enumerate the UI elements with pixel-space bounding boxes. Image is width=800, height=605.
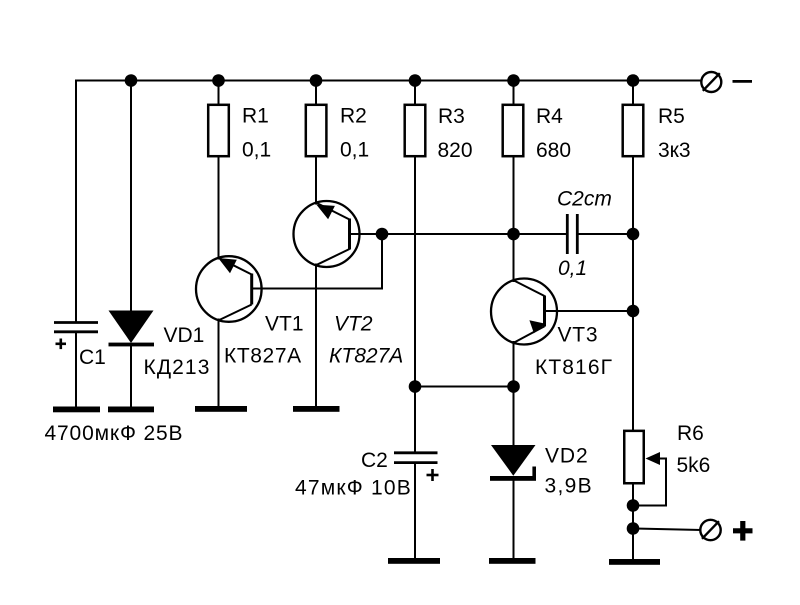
wire R1 top lead: [218, 81, 220, 105]
wire VT2 collector to common bar: [315, 265, 317, 408]
wire VD1 column upper: [130, 81, 132, 313]
svg-text:R4: R4: [536, 105, 563, 128]
junction R6 wiper return: [627, 499, 640, 512]
junction R5/top bus: [627, 74, 640, 87]
svg-text:4700мкФ 25В: 4700мкФ 25В: [45, 422, 184, 445]
junction R5/base bus: [627, 228, 640, 241]
wire VD1 column lower: [130, 345, 132, 407]
svg-text:R1: R1: [242, 105, 269, 128]
wire mid node line C2 to VD2: [415, 386, 514, 388]
wire top negative bus: [76, 80, 701, 82]
wire node A vertical base tie: [381, 234, 383, 289]
svg-text:КТ827А: КТ827А: [224, 345, 302, 368]
svg-text:5k6: 5k6: [677, 454, 711, 477]
svg-text:680: 680: [536, 139, 571, 162]
junction node A base tie: [376, 228, 389, 241]
junction R4/base bus: [507, 228, 520, 241]
resistor R3: [405, 105, 426, 156]
junction R1/top bus: [212, 74, 225, 87]
junction C2/mid line: [409, 380, 422, 393]
svg-text:VT3: VT3: [558, 324, 599, 347]
common rail bar under VD2: [489, 558, 536, 564]
svg-text:47мкФ 10В: 47мкФ 10В: [295, 477, 412, 500]
common rail bar under VD1: [108, 407, 154, 413]
wire R1 bottom lead to VT1 emitter: [218, 158, 220, 259]
svg-text:VD2: VD2: [545, 445, 589, 468]
transistor VT1 emitter diagonal: [219, 258, 251, 274]
resistor R2: [306, 105, 327, 156]
transistor VT2 base bar: [348, 219, 351, 250]
common rail bar under VT2: [293, 406, 340, 412]
svg-text:3,9В: 3,9В: [545, 475, 593, 498]
minus polarity sign: [733, 80, 753, 83]
svg-text:VD1: VD1: [164, 324, 205, 347]
terminal plus (bottom right): [700, 520, 720, 540]
zener diode VD2: [490, 445, 536, 481]
wire R6 wiper return vertical: [665, 459, 667, 506]
transistor VT1 emitter arrow: [218, 258, 237, 273]
svg-text:0,1: 0,1: [242, 139, 271, 162]
wire C2 bottom lead: [414, 464, 416, 560]
transistor VT2 collector diagonal: [317, 249, 350, 265]
wire R3 bottom lead to node C2: [414, 158, 416, 453]
transistor VT2 emitter arrow: [316, 205, 335, 220]
transistor VT1 base bar: [250, 274, 253, 305]
wire R5 top lead: [632, 81, 634, 105]
junction R4/top bus: [507, 74, 520, 87]
common rail bar under C2: [388, 558, 440, 564]
wire output tap to plus terminal: [633, 529, 701, 531]
svg-text:C2cm: C2cm: [557, 188, 612, 211]
svg-text:820: 820: [438, 139, 473, 162]
capacitor C2 plus polarity mark: [427, 469, 439, 481]
transistor VT3 emitter diagonal: [514, 281, 544, 296]
transistor VT1 collector diagonal: [219, 305, 251, 321]
junction VD2/mid line: [507, 380, 520, 393]
terminal minus (top right): [701, 72, 721, 92]
diode VD1: [109, 311, 155, 347]
wire R6 wiper return to column: [633, 505, 666, 507]
wire VD2 cathode to common bar: [513, 480, 515, 559]
svg-text:R6: R6: [677, 422, 704, 445]
transistor VT1 circle: [196, 256, 262, 322]
svg-text:R3: R3: [438, 105, 465, 128]
transistor VT3 base bar: [543, 296, 546, 327]
wire VT3 base lead: [545, 310, 634, 312]
common rail bar under VT1: [195, 406, 247, 412]
capacitor C1 plates: [54, 323, 98, 332]
junction R3/top bus: [409, 74, 422, 87]
svg-text:3к3: 3к3: [658, 139, 691, 162]
resistor R1: [208, 105, 229, 156]
potentiometer R6 wiper arrow: [646, 452, 661, 465]
junction output tap: [627, 522, 640, 535]
svg-text:VT1: VT1: [265, 313, 304, 336]
wire C1 column upper: [75, 81, 77, 322]
wire R4 top lead: [513, 81, 515, 105]
junction R2/top bus: [310, 74, 323, 87]
wire VT1 collector to common bar: [218, 320, 220, 408]
plus polarity sign: [733, 521, 753, 541]
junction VT3 base/R5 column: [627, 305, 640, 318]
potentiometer R6 body: [624, 431, 644, 483]
resistor R5: [623, 105, 644, 156]
svg-text:КТ816Г: КТ816Г: [535, 356, 613, 379]
svg-text:R2: R2: [340, 105, 367, 128]
wire VT3 collector to VD2 anode: [513, 342, 515, 446]
junction VD1/top bus: [125, 74, 138, 87]
svg-text:C1: C1: [79, 346, 106, 369]
transistor VT2 emitter diagonal: [317, 203, 350, 220]
common rail bar under C1: [53, 407, 100, 413]
svg-text:0,1: 0,1: [340, 139, 369, 162]
transistor VT3 emitter arrow (PNP, points to base bar): [529, 320, 545, 333]
transistor VT3 circle: [491, 279, 557, 345]
svg-text:C2: C2: [361, 449, 388, 472]
wire C2st right plate to R5 column: [579, 233, 634, 235]
capacitor C1 plus polarity mark: [56, 339, 67, 350]
wire R5 bottom lead to R6: [632, 158, 634, 431]
wire R2 bottom lead to VT2 emitter: [315, 158, 317, 204]
capacitor C2 plates: [394, 453, 438, 463]
wire VT1 base lead: [252, 288, 383, 290]
svg-text:КД213: КД213: [144, 356, 211, 379]
svg-text:0,1: 0,1: [558, 257, 587, 280]
wire C1 column lower: [75, 333, 77, 407]
svg-text:VT2: VT2: [334, 313, 373, 336]
svg-text:КТ827А: КТ827А: [329, 345, 403, 368]
capacitor C2st plates: [567, 214, 577, 254]
wire R3 top lead: [414, 81, 416, 105]
wire R2 top lead: [315, 81, 317, 105]
wire R6 wiper return horizontal: [658, 458, 666, 460]
common rail bar under R6 output: [609, 559, 660, 565]
transistor VT3 collector diagonal: [514, 326, 544, 342]
wire base bus VT2 to C2st: [350, 233, 567, 235]
resistor R4: [503, 105, 524, 156]
transistor VT2 circle: [294, 201, 360, 267]
svg-text:R5: R5: [658, 105, 685, 128]
wire R6 bottom lead to common bar: [632, 485, 634, 561]
wire R4 bottom lead to VT3 emitter: [513, 158, 515, 282]
